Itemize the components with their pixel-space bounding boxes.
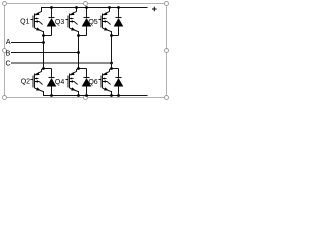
wire: Q1 freewheel diode branch [44, 8, 52, 36]
svg-text:Q1: Q1 [20, 19, 29, 26]
wire: Q6 freewheel diode branch [112, 69, 119, 96]
label: node A [6, 39, 11, 46]
junction: leg 2 phase node [77, 34, 80, 70]
svg-text:A: A [6, 39, 11, 46]
junction: leg 1 - rail [50, 94, 53, 97]
label: Q1 [20, 19, 29, 26]
junction: leg 2 + rail [75, 6, 88, 9]
label: + terminal [152, 7, 157, 12]
diode D1 [47, 18, 57, 27]
transistor Q1 [31, 8, 44, 32]
selection border frame [5, 4, 167, 98]
wire: leg 1 midpoint vertical [42, 31, 44, 70]
junction: leg 3 phase node [110, 34, 113, 70]
junction: leg 2 - rail [77, 94, 88, 97]
label: Q3 [55, 19, 64, 26]
transistor Q4 [66, 69, 79, 92]
wire: - DC rail (bottom) [43, 95, 148, 97]
diode D2 [47, 78, 57, 87]
label: node B [6, 50, 11, 57]
svg-text:Q2: Q2 [21, 79, 30, 86]
label: Q6 [88, 79, 97, 86]
label: Q4 [55, 79, 64, 86]
transistor Q2 [31, 69, 44, 92]
svg-text:Q4: Q4 [55, 79, 64, 86]
selection handles [3, 2, 169, 100]
wire: phase C [11, 62, 112, 64]
junction: leg 1 phase node [42, 34, 45, 70]
wire: Q2 freewheel diode branch [44, 69, 52, 96]
wire: phase A [11, 42, 44, 44]
wire: phase B [11, 52, 79, 54]
svg-text:C: C [5, 60, 10, 67]
wire: Q2 source to - rail [43, 91, 45, 96]
junction: leg 3 + rail [108, 6, 120, 9]
junction: leg 1 + rail [50, 6, 53, 9]
wire: leg 3 midpoint vertical [110, 31, 112, 70]
diode D3 [82, 18, 92, 27]
junction: leg 3 - rail [110, 94, 120, 97]
label: node C [5, 60, 10, 67]
wire: Q6 source to - rail [111, 91, 113, 96]
label: Q2 [21, 79, 30, 86]
svg-text:Q3: Q3 [55, 19, 64, 26]
transistor Q6 [99, 69, 112, 92]
diode D4 [82, 78, 92, 87]
wire: Q4 source to - rail [78, 91, 80, 96]
diode D6 [114, 78, 124, 87]
wire: leg 2 midpoint vertical [77, 31, 79, 70]
wire: Q3 freewheel diode branch [79, 8, 87, 36]
svg-text:B: B [6, 50, 11, 57]
svg-text:Q5: Q5 [88, 19, 97, 26]
transistor Q3 [66, 8, 79, 32]
transistor Q5 [99, 8, 112, 32]
wire: + DC rail (top) [41, 7, 148, 9]
wire: Q4 freewheel diode branch [79, 69, 87, 96]
svg-text:Q6: Q6 [88, 79, 97, 86]
label: Q5 [88, 19, 97, 26]
wire: Q5 freewheel diode branch [112, 8, 119, 36]
diode D5 [114, 18, 124, 27]
